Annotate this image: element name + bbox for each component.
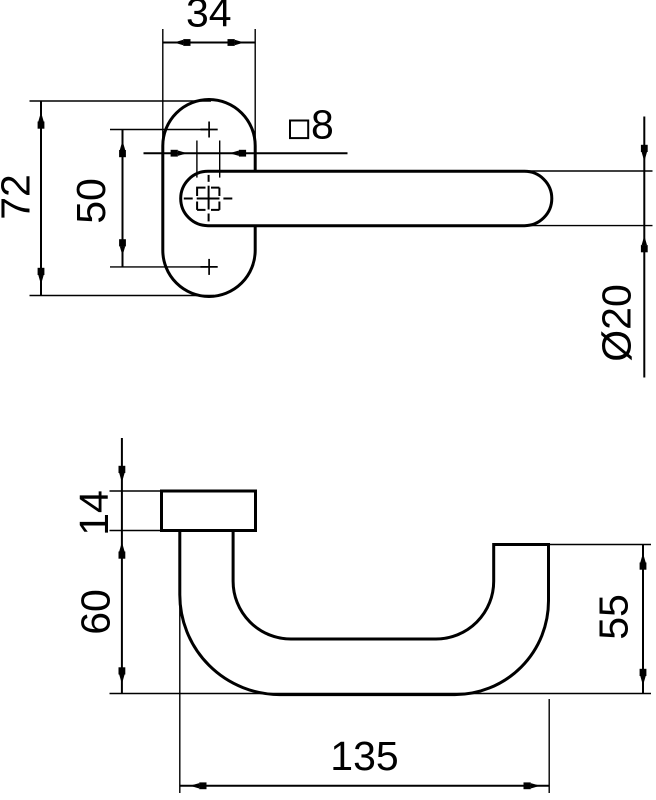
dim diam20: dimension line	[643, 117, 645, 378]
spindle square hole (dashed)	[197, 188, 219, 210]
rosette side profile rectangle	[162, 491, 256, 531]
dim square-8: arrows (outside)	[171, 150, 188, 157]
dim 135: dimension line	[180, 785, 549, 787]
svg-text:34: 34	[186, 0, 232, 36]
dim 55: extension line top	[549, 544, 651, 546]
dim 135: extension lines	[180, 597, 549, 793]
dim 50: arrows	[119, 141, 126, 158]
dim 60: bottom arrow	[119, 667, 126, 684]
dim 55: arrows	[640, 553, 647, 570]
dim 135: arrows	[190, 782, 207, 789]
dim 50: dimension line	[122, 130, 124, 267]
dim square-8: label	[290, 121, 308, 139]
svg-text:135: 135	[330, 733, 398, 779]
dim 55: dimension line	[642, 545, 644, 694]
svg-text:14: 14	[71, 490, 117, 536]
dim 34: arrows	[174, 39, 191, 46]
svg-text:8: 8	[311, 102, 334, 148]
svg-text:72: 72	[0, 174, 38, 220]
dim diam20: arrows (outside)	[641, 145, 648, 162]
dim 34: extension lines	[163, 29, 255, 147]
svg-text:55: 55	[590, 594, 636, 640]
lever handle (front view, rounded bar)	[181, 171, 552, 225]
dim 14/60: shared dimension line	[121, 438, 123, 694]
dim 34: dimension line	[163, 42, 255, 44]
dim 72: extension lines	[30, 101, 215, 296]
svg-text:60: 60	[72, 589, 118, 635]
screw hole cross top	[201, 122, 218, 138]
dim 50: extension lines	[110, 130, 208, 267]
svg-text:50: 50	[68, 178, 114, 224]
dim diam20: extension lines	[525, 171, 653, 226]
dim 72: arrows	[38, 112, 45, 129]
svg-text:Ø20: Ø20	[594, 284, 640, 362]
rosette (oval escutcheon)	[163, 100, 255, 297]
bottom reference line	[110, 693, 652, 695]
handle side profile outline	[180, 531, 549, 695]
centerline vertical through spindle	[208, 175, 210, 222]
dim square-8: extension lines	[197, 141, 220, 178]
dim 14: extension lines	[110, 491, 162, 531]
dim 14: arrows	[119, 466, 126, 483]
centerline horizontal through spindle	[184, 198, 233, 200]
screw hole cross bottom	[201, 259, 218, 275]
dim 72: dimension line	[40, 101, 42, 296]
dim square-8: dimension line	[144, 152, 348, 154]
